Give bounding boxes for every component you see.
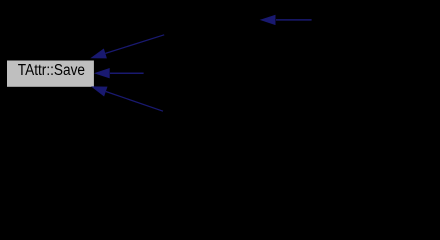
- arrowhead edge node2->node1: [260, 15, 276, 25]
- caller graph: TAttr::Save: [0, 0, 440, 147]
- svg-text:TAttr::Save: TAttr::Save: [18, 62, 85, 79]
- wire: edge node4->save (bottom diagonal): [106, 92, 163, 112]
- wire: edge node3->save (middle horizontal): [110, 72, 144, 74]
- wire: edge node2->node1 (top horizontal): [276, 19, 312, 21]
- arrowhead edge node3->save: [94, 68, 110, 78]
- arrowhead edge node4->save: [91, 86, 108, 96]
- node TAttr::Save (grey box): [7, 61, 94, 87]
- arrowhead edge node2->save: [90, 49, 107, 59]
- wire: edge node2->save (top diagonal): [105, 35, 164, 54]
